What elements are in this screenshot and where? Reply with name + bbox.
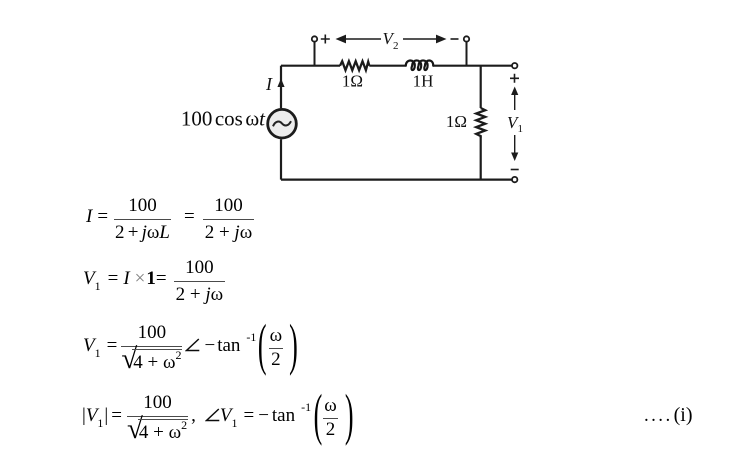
equation line 2: V1 = I x 1 = 100/(2+jw) bbox=[83, 257, 225, 306]
wire between R1 and L1 bbox=[369, 65, 405, 67]
wire right branch upper bbox=[480, 66, 482, 108]
label I bbox=[265, 74, 273, 94]
terminal (V2 +) bbox=[312, 36, 317, 41]
label - (V2) bbox=[451, 38, 459, 40]
label 1 ohm (shunt resistor) bbox=[446, 112, 467, 131]
equation number (i) bbox=[644, 404, 693, 427]
label - (V1) bbox=[511, 169, 519, 171]
inductor L1 (1 H) bbox=[406, 60, 433, 70]
wire left vertical lower bbox=[280, 139, 282, 179]
wire left vertical upper (source top) bbox=[280, 66, 282, 109]
V2 arrow (left) bbox=[336, 35, 382, 44]
resistor R1 (series 1 ohm) bbox=[340, 61, 369, 70]
label 1H bbox=[413, 72, 434, 91]
terminal (bottom right, V1 -) bbox=[512, 177, 517, 182]
label V1 bbox=[507, 113, 523, 135]
equation line 1: I = 100/(2+jwL) = 100/(2+jw) bbox=[86, 195, 254, 244]
V1 arrow (down) bbox=[511, 135, 518, 161]
svg-text:1Ω: 1Ω bbox=[342, 72, 363, 91]
svg-text:1H: 1H bbox=[413, 72, 434, 91]
wire top-left segment bbox=[281, 65, 340, 67]
svg-text:I: I bbox=[265, 74, 273, 94]
equation line 4: |V1| = 100/sqrt(4+w^2), angle V1 = -tan^-1(w/2) bbox=[82, 392, 353, 444]
wire top-right segment bbox=[433, 65, 512, 67]
label 100cos(wt) bbox=[181, 107, 266, 131]
wire bottom bbox=[281, 179, 512, 181]
V2 arrow (right) bbox=[403, 35, 447, 44]
svg-text:100cosωt: 100cosωt bbox=[181, 107, 266, 131]
equation line 3: V1 = 100/sqrt(4+w^2) angle -tan^-1(w/2) bbox=[83, 322, 298, 374]
wire right branch lower bbox=[480, 138, 482, 180]
svg-text:1Ω: 1Ω bbox=[446, 112, 467, 131]
current arrow I bbox=[277, 79, 284, 88]
wire stub V2 + terminal bbox=[314, 42, 316, 66]
terminal (V2 -) bbox=[464, 36, 469, 41]
V1 arrow (up) bbox=[511, 87, 518, 111]
label + (V2) bbox=[321, 35, 330, 44]
label V2 bbox=[383, 29, 399, 52]
resistor R2 (shunt 1 ohm) bbox=[476, 108, 485, 138]
label 1 ohm (series resistor) bbox=[342, 72, 363, 91]
source V=100cos(wt) bbox=[268, 109, 297, 138]
label + (V1) bbox=[510, 74, 519, 83]
wire stub V2 - terminal bbox=[466, 42, 468, 66]
terminal (top right, V1 +) bbox=[512, 63, 517, 68]
svg-text:2: 2 bbox=[393, 40, 399, 52]
svg-text:1: 1 bbox=[518, 123, 524, 135]
